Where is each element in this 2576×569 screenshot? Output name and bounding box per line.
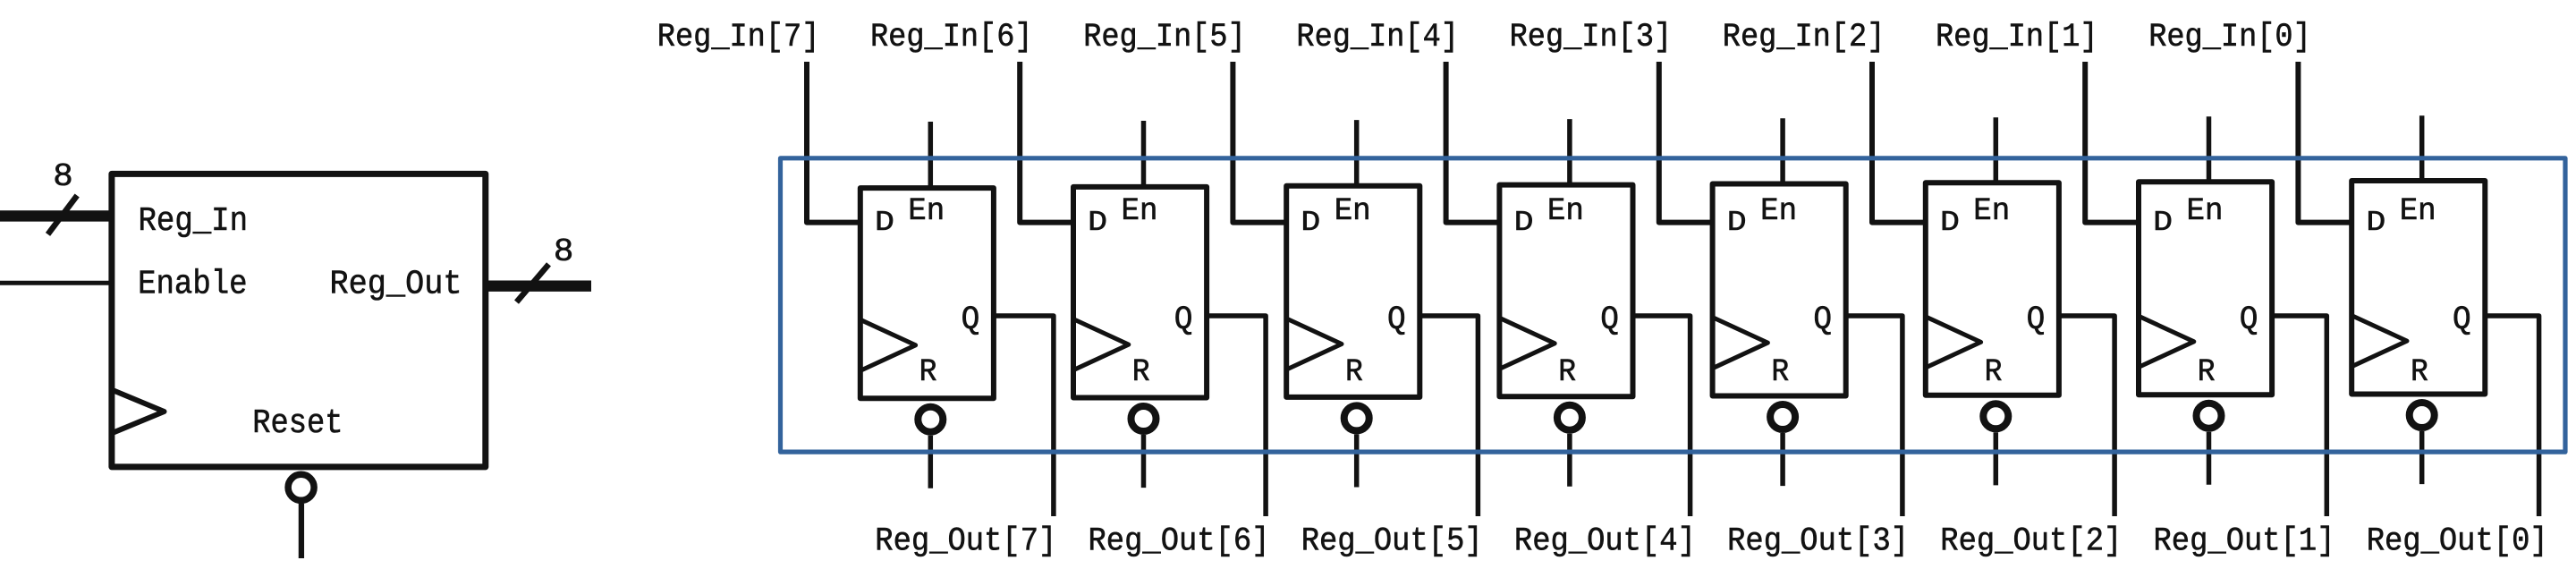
register boundary box (blue) xyxy=(781,158,2566,452)
clock triangle (FF0) xyxy=(2351,316,2407,367)
wire: Enable to En pin of FF5 xyxy=(1354,120,1360,186)
svg-text:Reg_In[0]: Reg_In[0] xyxy=(2148,19,2311,56)
wire: Reg_Out output bus xyxy=(486,281,591,292)
svg-text:Q: Q xyxy=(1600,301,1619,339)
active-low reset bubble (FF4) xyxy=(1557,405,1582,430)
svg-text:8: 8 xyxy=(53,158,72,195)
active-low reset bubble (FF5) xyxy=(1344,405,1369,430)
svg-text:Q: Q xyxy=(1813,301,1832,339)
svg-text:R: R xyxy=(1132,354,1150,390)
wire: Q output of FF1 to Reg_Out[1] xyxy=(2272,316,2326,516)
wire: Reg_In[6] to D input xyxy=(1020,62,1073,223)
D flip-flop FF2 (bit 2) xyxy=(1926,183,2059,395)
D flip-flop FF3 (bit 3) xyxy=(1713,184,1846,396)
svg-text:D: D xyxy=(2153,208,2173,239)
svg-text:R: R xyxy=(1985,354,2003,390)
svg-text:Reg_In[6]: Reg_In[6] xyxy=(870,19,1033,56)
active-low reset bubble (FF6) xyxy=(1131,406,1157,431)
wire: Enable to En pin of FF1 xyxy=(2207,116,2212,182)
svg-text:Reg_Out[3]: Reg_Out[3] xyxy=(1727,522,1909,560)
svg-text:Enable: Enable xyxy=(138,266,248,304)
svg-text:Q: Q xyxy=(962,301,980,339)
wire: reset stub (FF3) xyxy=(1780,433,1785,486)
svg-text:Reg_Out[1]: Reg_Out[1] xyxy=(2154,522,2335,560)
bus-width slash (input) xyxy=(48,196,78,234)
svg-text:Reg_Out: Reg_Out xyxy=(330,266,462,304)
wire: reset stub (FF6) xyxy=(1141,435,1147,488)
wire: Q output of FF3 to Reg_Out[3] xyxy=(1846,316,1902,516)
svg-text:Reg_In[1]: Reg_In[1] xyxy=(1936,19,2098,56)
wire: Enable to En pin of FF0 xyxy=(2419,115,2425,181)
wire: Reg_In[3] to D input xyxy=(1659,62,1713,223)
svg-text:R: R xyxy=(1771,354,1789,390)
svg-text:En: En xyxy=(908,193,945,229)
D flip-flop FF5 (bit 5) xyxy=(1286,186,1419,397)
wire: Q output of FF2 to Reg_Out[2] xyxy=(2059,316,2114,516)
wire: Reg_In[5] to D input xyxy=(1233,62,1286,223)
svg-text:Reg_In[3]: Reg_In[3] xyxy=(1510,19,1673,56)
D flip-flop FF4 (bit 4) xyxy=(1499,185,1632,397)
svg-text:Q: Q xyxy=(2240,301,2258,339)
svg-text:Reg_Out[2]: Reg_Out[2] xyxy=(1940,522,2122,560)
clock triangle (FF3) xyxy=(1713,318,1768,369)
wire: Enable to En pin of FF2 xyxy=(1994,117,1999,183)
active-low reset bubble (FF2) xyxy=(1983,403,2008,429)
svg-text:En: En xyxy=(2187,193,2224,229)
wire: reset stub (FF0) xyxy=(2419,431,2425,484)
svg-text:En: En xyxy=(1122,193,1158,229)
svg-text:Reg_Out[5]: Reg_Out[5] xyxy=(1301,522,1483,560)
svg-text:En: En xyxy=(1760,193,1797,229)
svg-text:Q: Q xyxy=(2453,301,2471,339)
clock triangle (FF2) xyxy=(1926,317,1981,368)
svg-text:D: D xyxy=(2366,208,2385,239)
svg-text:R: R xyxy=(919,354,937,390)
clock triangle (FF5) xyxy=(1286,318,1342,369)
D flip-flop FF1 (bit 1) xyxy=(2139,182,2272,395)
wire: Q output of FF4 to Reg_Out[4] xyxy=(1633,316,1690,516)
svg-text:D: D xyxy=(1514,208,1534,239)
svg-text:En: En xyxy=(1335,193,1371,229)
wire: Reg_In[1] to D input xyxy=(2085,62,2139,223)
active-low reset bubble (FF0) xyxy=(2410,403,2435,428)
D flip-flop FF7 (bit 7) xyxy=(860,188,994,398)
svg-text:Q: Q xyxy=(1387,301,1406,339)
clock triangle (FF1) xyxy=(2139,316,2194,367)
svg-text:Reg_Out[7]: Reg_Out[7] xyxy=(875,522,1056,560)
wire: Reg_In input bus xyxy=(0,210,112,221)
wire: reset stub (FF1) xyxy=(2207,432,2212,485)
svg-text:Q: Q xyxy=(1174,301,1193,339)
wire: Enable to En pin of FF3 xyxy=(1780,118,1785,183)
clock triangle (FF6) xyxy=(1073,319,1129,370)
wire: Reg_In[4] to D input xyxy=(1446,62,1500,223)
svg-text:Reg_In[2]: Reg_In[2] xyxy=(1723,19,1885,56)
wire: Reg_In[2] to D input xyxy=(1872,62,1926,223)
svg-text:R: R xyxy=(1345,354,1363,390)
svg-text:Reg_Out[4]: Reg_Out[4] xyxy=(1514,522,1696,560)
active-low Reset bubble xyxy=(288,474,314,500)
svg-text:Q: Q xyxy=(2027,301,2046,339)
svg-text:Reg_In[7]: Reg_In[7] xyxy=(657,19,820,56)
clock edge triangle (register block) xyxy=(112,390,165,434)
clock triangle (FF4) xyxy=(1499,318,1555,369)
svg-text:Reg_Out[6]: Reg_Out[6] xyxy=(1089,522,1270,560)
svg-text:Reg_In[5]: Reg_In[5] xyxy=(1083,19,1246,56)
wire: Reg_In[0] to D input xyxy=(2298,62,2351,223)
wire: Enable to En pin of FF7 xyxy=(928,122,934,188)
svg-text:Reg_Out[0]: Reg_Out[0] xyxy=(2367,522,2548,560)
D flip-flop FF0 (bit 0) xyxy=(2351,181,2485,395)
wire: Enable to En pin of FF4 xyxy=(1567,119,1572,185)
wire: Q output of FF7 to Reg_Out[7] xyxy=(994,316,1054,516)
wire: Q output of FF5 to Reg_Out[5] xyxy=(1419,316,1478,516)
wire: Enable to En pin of FF6 xyxy=(1141,121,1147,187)
svg-text:R: R xyxy=(2198,354,2216,390)
wire: Q output of FF0 to Reg_Out[0] xyxy=(2485,316,2538,516)
active-low reset bubble (FF1) xyxy=(2197,403,2222,429)
wire: reset stub (FF5) xyxy=(1354,434,1360,487)
svg-text:En: En xyxy=(1973,193,2010,229)
wire: reset stub (FF4) xyxy=(1567,434,1572,487)
svg-text:Reg_In[4]: Reg_In[4] xyxy=(1296,19,1459,56)
register block REG (8-bit register symbol) xyxy=(112,174,486,467)
wire: reset stub (FF2) xyxy=(1994,432,1999,485)
wire: Q output of FF6 to Reg_Out[6] xyxy=(1207,316,1266,516)
svg-text:8: 8 xyxy=(554,234,574,270)
svg-text:D: D xyxy=(1301,208,1320,239)
clock triangle (FF7) xyxy=(860,319,916,370)
active-low reset bubble (FF7) xyxy=(918,407,943,432)
wire: Reg_In[7] to D input xyxy=(807,62,860,223)
svg-text:En: En xyxy=(2400,193,2436,229)
svg-text:R: R xyxy=(2411,354,2428,390)
active-low reset bubble (FF3) xyxy=(1770,404,1795,429)
svg-text:R: R xyxy=(1558,354,1576,390)
bus-width slash (output) xyxy=(517,264,549,301)
D flip-flop FF6 (bit 6) xyxy=(1073,187,1207,398)
svg-text:D: D xyxy=(1940,208,1960,239)
svg-text:D: D xyxy=(875,208,894,239)
svg-text:Reset: Reset xyxy=(252,404,343,443)
svg-text:En: En xyxy=(1547,193,1584,229)
svg-text:Reg_In: Reg_In xyxy=(139,202,249,241)
svg-text:D: D xyxy=(1727,208,1747,239)
wire: Reset input stub xyxy=(299,504,304,558)
svg-text:D: D xyxy=(1088,208,1107,239)
wire: Enable input xyxy=(0,281,112,285)
wire: reset stub (FF7) xyxy=(928,436,934,488)
